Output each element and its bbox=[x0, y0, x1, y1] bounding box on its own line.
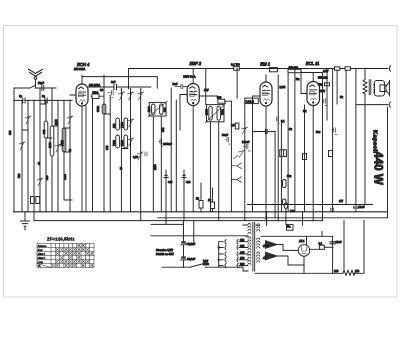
svg-text:ECL 11: ECL 11 bbox=[306, 61, 320, 66]
capacitor 4u5 b bbox=[182, 175, 186, 186]
wire v285 drop bbox=[285, 208, 287, 224]
svg-text:4u5: 4u5 bbox=[186, 180, 191, 184]
switch mains bbox=[190, 264, 204, 268]
wire v304 bbox=[304, 105, 306, 212]
svg-text:470 000: 470 000 bbox=[289, 66, 299, 70]
wire v294 bbox=[294, 69, 296, 212]
svg-text:DRG: DRG bbox=[93, 91, 99, 95]
wire links left bbox=[22, 104, 128, 152]
resistor DRG bbox=[92, 94, 99, 99]
wire v58 bbox=[57, 100, 59, 211]
page frame bbox=[4, 26, 398, 298]
svg-text:500: 500 bbox=[217, 96, 222, 100]
IF transformer 2 bbox=[205, 103, 226, 123]
svg-text:1W: 1W bbox=[339, 199, 343, 203]
svg-text:220: 220 bbox=[240, 262, 245, 266]
capacitor 4u5 a bbox=[164, 175, 168, 186]
svg-text:Kapsch: Kapsch bbox=[372, 130, 378, 153]
wire v92 bbox=[92, 99, 94, 212]
svg-text:AZ 1: AZ 1 bbox=[298, 239, 305, 243]
wire v176 bbox=[175, 100, 177, 212]
resistor 0,1 700 on bus bbox=[234, 67, 240, 71]
wire bottom bus bbox=[255, 221, 364, 274]
svg-text:100uF: 100uF bbox=[242, 140, 250, 144]
coil L1 bbox=[44, 121, 48, 138]
table ZF bbox=[37, 237, 94, 268]
tube V4 ECL11 bbox=[301, 73, 320, 221]
svg-text:220: 220 bbox=[334, 269, 339, 273]
wire v110 bbox=[109, 95, 111, 212]
svg-text:0,1: 0,1 bbox=[319, 242, 323, 246]
svg-text:110: 110 bbox=[355, 269, 360, 273]
resistor 500 bbox=[218, 99, 225, 103]
coil L6 bbox=[124, 118, 128, 130]
wire v28 bbox=[27, 100, 29, 211]
trimmer v70 bbox=[67, 116, 73, 124]
trimmer t1 bbox=[119, 92, 125, 100]
antenna bbox=[29, 69, 43, 76]
svg-text:Ru: Ru bbox=[296, 77, 300, 81]
wire v327 bbox=[326, 69, 328, 121]
svg-text:7000: 7000 bbox=[112, 140, 116, 146]
svg-text:50pF: 50pF bbox=[38, 81, 44, 85]
svg-text:150 100A: 150 100A bbox=[89, 83, 100, 87]
wire v149 bbox=[152, 116, 154, 212]
capacitor 100uF bbox=[244, 144, 251, 151]
svg-text:50u: 50u bbox=[316, 130, 321, 134]
svg-text:7000: 7000 bbox=[120, 122, 124, 128]
svg-text:6,10: 6,10 bbox=[133, 155, 139, 159]
switch antenna bbox=[30, 85, 36, 88]
wire det line bbox=[253, 129, 276, 218]
coil L2 bbox=[50, 126, 54, 156]
wire heater bus bbox=[151, 235, 248, 237]
capacitor 0,1 block bbox=[320, 245, 325, 249]
wire v86 bbox=[85, 106, 87, 212]
svg-text:50u: 50u bbox=[287, 174, 292, 178]
wire HT fan upper bbox=[265, 240, 279, 249]
wire v64 bbox=[64, 100, 72, 200]
resistor Rk2 bbox=[211, 202, 215, 209]
svg-text:600: 600 bbox=[163, 107, 167, 112]
wire v288 bbox=[287, 73, 289, 212]
fuse Fla 1000 bbox=[287, 224, 294, 230]
svg-text:2000: 2000 bbox=[205, 109, 209, 115]
capacitor 16uF a bbox=[353, 205, 358, 212]
output transformer core bbox=[369, 80, 371, 95]
coil L3 bbox=[62, 128, 66, 152]
svg-text:4V: 4V bbox=[263, 256, 266, 260]
capacitor top right b bbox=[332, 128, 337, 135]
wire v281 bbox=[280, 123, 282, 212]
box LMK bbox=[280, 150, 287, 157]
trimmer v40 bbox=[37, 178, 43, 186]
wire L221 bus bbox=[34, 220, 322, 222]
wire HT fan lower bbox=[265, 252, 279, 261]
svg-text:Antenne: Antenne bbox=[38, 245, 47, 248]
svg-text:500: 500 bbox=[17, 173, 21, 178]
svg-text:110: 110 bbox=[240, 238, 245, 242]
resistor R1 box bbox=[31, 197, 35, 204]
svg-text:6000: 6000 bbox=[120, 140, 124, 146]
choke Dr2 bbox=[345, 67, 350, 70]
trimmer t6 bbox=[137, 152, 143, 160]
svg-text:160: 160 bbox=[240, 256, 245, 260]
coil L4 bbox=[102, 104, 106, 114]
wire AZ1 heater drop bbox=[306, 236, 308, 244]
capacitor electrolytic 43uF b bbox=[181, 256, 186, 258]
capacitor 30uF bbox=[108, 90, 114, 98]
wire v161 bbox=[160, 116, 162, 212]
wire v210 bbox=[210, 122, 212, 212]
svg-text:350V: 350V bbox=[263, 244, 269, 248]
wire L224 stub bbox=[151, 223, 184, 225]
wire top bus bbox=[129, 68, 387, 70]
coil L7 bbox=[116, 135, 120, 148]
svg-text:4u5: 4u5 bbox=[168, 180, 173, 184]
capacitor RuF grid bbox=[176, 84, 188, 89]
svg-text:150 100A: 150 100A bbox=[74, 67, 85, 71]
wire heater winding line bbox=[261, 235, 333, 237]
resistor box mid right b bbox=[329, 151, 333, 157]
wire v130 bbox=[130, 89, 132, 212]
svg-text:6,3V: 6,3V bbox=[323, 69, 329, 73]
wire v22 bbox=[21, 100, 23, 211]
svg-text:600: 600 bbox=[42, 129, 46, 134]
svg-text:1100: 1100 bbox=[147, 106, 151, 112]
wire antenna line bbox=[14, 87, 56, 89]
svg-text:1uF: 1uF bbox=[111, 80, 116, 84]
wire input line bbox=[14, 99, 72, 101]
coil pill right a bbox=[283, 180, 287, 188]
capacitor electrolytic 40uF a bbox=[183, 221, 185, 241]
IF transformer 1 bbox=[148, 101, 168, 117]
wire bus left drop bbox=[128, 69, 130, 89]
svg-text:43,0uF: 43,0uF bbox=[187, 257, 195, 261]
table x marks bbox=[52, 244, 93, 266]
capacitor 0,1uF bbox=[276, 117, 279, 124]
wire v140 bbox=[140, 89, 142, 221]
svg-text:100: 100 bbox=[290, 209, 295, 213]
mains transformer bbox=[240, 223, 260, 272]
wire ground bus bbox=[14, 211, 388, 213]
svg-text:50uF: 50uF bbox=[222, 133, 228, 137]
trimmer t5 bbox=[128, 138, 134, 146]
wire v186 left lead bbox=[179, 95, 181, 131]
choke Dr1 bbox=[335, 67, 340, 70]
wire v244 bbox=[244, 104, 246, 221]
svg-text:16uF: 16uF bbox=[359, 205, 365, 209]
svg-text:2,5M: 2,5M bbox=[280, 85, 286, 89]
resistor 45k bbox=[325, 83, 330, 86]
wire v104 bbox=[103, 75, 105, 212]
capacitor 1uF bbox=[114, 85, 117, 90]
wire 4u5 a stubs bbox=[165, 170, 167, 224]
svg-text:1100: 1100 bbox=[48, 142, 52, 148]
svg-text:600: 600 bbox=[8, 130, 12, 135]
wire v341 bbox=[345, 70, 347, 204]
resistor box mid right a bbox=[303, 154, 307, 160]
wire v278 bbox=[277, 75, 279, 221]
capacitor 3pF bbox=[45, 98, 47, 103]
svg-text:220V 2mA: 220V 2mA bbox=[183, 74, 195, 78]
wire v252 bbox=[252, 96, 254, 212]
svg-text:Fla: Fla bbox=[287, 224, 291, 228]
terminal top bbox=[386, 68, 388, 70]
svg-text:1100: 1100 bbox=[54, 119, 58, 125]
resistor 2,0 box bbox=[235, 123, 239, 129]
svg-text:10V: 10V bbox=[204, 88, 209, 92]
svg-text:7000: 7000 bbox=[221, 109, 225, 115]
svg-text:600: 600 bbox=[112, 123, 116, 128]
capacitor 8950 bbox=[159, 139, 164, 147]
svg-text:16uF: 16uF bbox=[336, 240, 342, 244]
svg-text:600: 600 bbox=[105, 145, 109, 150]
wire v70 bbox=[69, 100, 71, 211]
potentiometer volume bbox=[231, 163, 241, 182]
wire v337 bbox=[336, 70, 338, 104]
wire 4u5 b stubs bbox=[183, 170, 185, 221]
output transformer secondary bbox=[373, 85, 376, 92]
capacitor 1pF bbox=[23, 98, 25, 103]
wire v231 bbox=[230, 101, 232, 212]
wire aux bbox=[89, 86, 113, 88]
wire v205 bbox=[205, 69, 207, 105]
svg-text:RuF: RuF bbox=[173, 82, 178, 86]
wire v302 drop bbox=[302, 212, 304, 226]
wire AZ1 cathode down bbox=[303, 256, 305, 273]
svg-text:ZF=128,5kHz: ZF=128,5kHz bbox=[47, 237, 75, 242]
wire v332 bbox=[332, 69, 334, 212]
wire v218 bbox=[218, 122, 220, 221]
svg-text:Mittel 1: Mittel 1 bbox=[38, 253, 46, 256]
speaker bbox=[374, 80, 389, 96]
wire v266 drop bbox=[266, 212, 268, 226]
svg-text:1000: 1000 bbox=[203, 262, 209, 266]
wire v322 bbox=[301, 73, 323, 221]
svg-text:150V: 150V bbox=[319, 89, 325, 93]
capacitor 50uF bbox=[226, 137, 231, 144]
svg-text:Lang: Lang bbox=[38, 262, 44, 264]
svg-text:600: 600 bbox=[161, 127, 165, 132]
voltage selector column 2 bbox=[237, 238, 248, 268]
trimmer t3 bbox=[138, 92, 144, 100]
coil L5 bbox=[116, 118, 120, 130]
trimmer v28 bbox=[25, 116, 31, 124]
resistor 470000 bbox=[288, 69, 301, 72]
wire left vertical 600 bbox=[13, 88, 15, 212]
svg-text:1100: 1100 bbox=[153, 164, 157, 170]
capacitor 50pF bbox=[36, 86, 56, 91]
wire v34 bbox=[33, 100, 35, 220]
svg-text:0,1: 0,1 bbox=[303, 109, 307, 113]
wire v171 bbox=[170, 88, 172, 212]
wire B+ right rail bbox=[248, 204, 373, 206]
wire v344 psu bbox=[343, 221, 345, 269]
wire v332 psu bbox=[332, 236, 334, 273]
voltage selector column 1 bbox=[218, 240, 226, 268]
svg-text:600: 600 bbox=[45, 175, 49, 180]
svg-text:EM 1: EM 1 bbox=[260, 61, 270, 66]
svg-text:0,1 700: 0,1 700 bbox=[231, 63, 240, 67]
wire band drop bbox=[321, 231, 323, 236]
wire v237 bbox=[236, 69, 238, 99]
diode indicator bbox=[331, 208, 334, 211]
svg-text:440 W: 440 W bbox=[372, 152, 384, 185]
label sprinkle left bbox=[17, 77, 343, 180]
svg-text:EBF 2: EBF 2 bbox=[190, 61, 202, 66]
rectifier tube AZ1 bbox=[294, 245, 319, 257]
wire grid top bbox=[82, 77, 157, 88]
svg-text:145: 145 bbox=[240, 250, 245, 254]
wire osc line bbox=[112, 86, 151, 88]
wire right vertical bbox=[387, 107, 389, 218]
coil pill right b bbox=[283, 199, 287, 205]
capacitor pad bbox=[145, 152, 147, 156]
wire L218 bus bbox=[158, 217, 388, 219]
wire v355 bbox=[355, 69, 357, 205]
svg-text:125: 125 bbox=[240, 244, 245, 248]
box CIRB bbox=[245, 98, 258, 104]
wire mains line bbox=[162, 266, 240, 268]
capacitor top right a bbox=[322, 99, 327, 106]
label Kapsch 440 W bbox=[372, 130, 384, 185]
resistor RST heater dropper bbox=[343, 270, 355, 275]
ground bbox=[21, 212, 30, 230]
resistor pill v285 bbox=[284, 203, 287, 208]
tube V2 EBF2 bbox=[180, 69, 199, 212]
svg-text:Betrieb ca 45W: Betrieb ca 45W bbox=[156, 252, 174, 256]
svg-text:Stromlos 4,5W: Stromlos 4,5W bbox=[156, 248, 174, 252]
trimmer v58 bbox=[55, 144, 61, 152]
svg-text:Mittel 2: Mittel 2 bbox=[38, 257, 46, 260]
trimmer t2 bbox=[128, 92, 134, 100]
trimmer det b bbox=[239, 151, 245, 158]
svg-text:TA: TA bbox=[38, 265, 41, 268]
svg-text:ECH 4: ECH 4 bbox=[77, 62, 90, 67]
tube V1 ECH4 bbox=[70, 75, 88, 212]
resistor Ru box bbox=[270, 68, 278, 72]
svg-text:600A: 600A bbox=[96, 106, 100, 112]
svg-text:7000: 7000 bbox=[60, 140, 64, 146]
resistor Rk1 bbox=[199, 201, 203, 209]
svg-text:7000: 7000 bbox=[63, 174, 67, 180]
wire v121 bbox=[120, 89, 122, 212]
wire feed to caps bbox=[186, 221, 194, 244]
svg-text:2,0: 2,0 bbox=[231, 123, 235, 127]
terminal bottom bbox=[356, 104, 388, 106]
resistor R2 box bbox=[36, 197, 40, 204]
resistor v22 variable bbox=[19, 142, 25, 150]
wire v40 bbox=[39, 88, 41, 212]
wire v260 tube3 feed bbox=[253, 95, 260, 97]
tube V3 EM1 bbox=[260, 75, 272, 220]
capacitor 16uF b bbox=[330, 242, 335, 244]
coil L8 bbox=[124, 135, 128, 148]
trimmer t4 bbox=[128, 119, 134, 127]
trimmer det a bbox=[242, 128, 248, 135]
field coil zigzag primary bbox=[363, 69, 367, 205]
svg-text:Kurz: Kurz bbox=[38, 249, 44, 252]
